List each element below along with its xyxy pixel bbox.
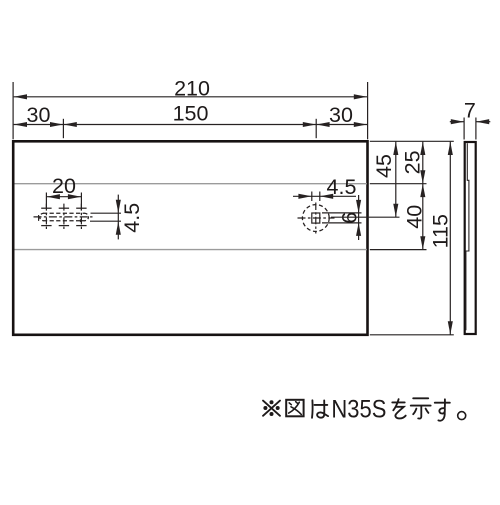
note kanji shimesu bbox=[411, 398, 431, 418]
left slot horizontal centerline bbox=[34, 216, 93, 218]
dimension line 210 bbox=[14, 96, 368, 98]
left extension line bbox=[12, 82, 14, 139]
svg-text:4.5: 4.5 bbox=[327, 175, 357, 199]
note hiragana wo bbox=[392, 399, 405, 418]
dimension line 6 bbox=[358, 195, 360, 240]
note hiragana ha bbox=[312, 400, 328, 418]
svg-text:30: 30 bbox=[329, 103, 353, 127]
dimension line 4.5 right bbox=[293, 195, 356, 197]
right extension line bbox=[367, 82, 369, 139]
svg-text:115: 115 bbox=[428, 214, 452, 248]
dimension line 115 bbox=[449, 142, 451, 335]
right hole dashed circle bbox=[302, 205, 329, 232]
dimension line 45 bbox=[395, 142, 397, 217]
svg-text:4.5: 4.5 bbox=[120, 203, 144, 233]
note ideographic full stop bbox=[458, 412, 466, 420]
dim 4.5 left extension lines bbox=[91, 212, 122, 214]
extension line 25-40 bbox=[370, 183, 427, 185]
svg-text:45: 45 bbox=[372, 154, 396, 178]
dim 7 extension lines bbox=[463, 118, 465, 140]
extension line 45 from hole bbox=[331, 216, 400, 218]
svg-text:210: 210 bbox=[174, 76, 210, 100]
dimension line 20 bbox=[46, 196, 81, 198]
extension line top right bbox=[370, 140, 454, 142]
note hiragana su bbox=[435, 399, 450, 420]
dim 4.5 right ticks bbox=[311, 192, 313, 202]
svg-text:25: 25 bbox=[401, 150, 425, 174]
svg-text:30: 30 bbox=[27, 103, 51, 127]
hole 3 vertical centerline bbox=[80, 204, 82, 230]
note reference mark kome bbox=[263, 400, 280, 416]
svg-text:150: 150 bbox=[173, 102, 209, 126]
tick between 150 and 30 bbox=[315, 119, 317, 138]
note kanji zu bbox=[286, 400, 303, 417]
dimension line 4.5 left bbox=[117, 195, 119, 240]
svg-text:20: 20 bbox=[52, 174, 76, 198]
dimension line 40 bbox=[422, 184, 424, 250]
side view inner face line bbox=[466, 143, 469, 330]
svg-text:40: 40 bbox=[402, 205, 426, 229]
extension line bottom right bbox=[370, 334, 454, 336]
side view outline bbox=[465, 142, 476, 334]
lower score line (65mm from top) bbox=[15, 249, 367, 251]
dimension line 25 bbox=[422, 142, 424, 184]
hole 1 vertical centerline bbox=[45, 204, 47, 230]
hole tick marks lower bbox=[41, 225, 51, 227]
svg-text:N35S: N35S bbox=[331, 397, 386, 424]
hole tick marks upper bbox=[41, 207, 51, 209]
right hole small slot bbox=[312, 213, 320, 223]
right hole vertical centerline bbox=[315, 203, 317, 234]
dimension line 7 bbox=[450, 121, 464, 123]
left slot hidden outline dashed bbox=[40, 213, 89, 221]
left slot small arrow mark bbox=[80, 219, 84, 222]
extension line 40 lower bbox=[370, 249, 427, 251]
left slot end tick bbox=[38, 215, 40, 221]
dim 20 extension tick right bbox=[80, 193, 82, 211]
hole 2 vertical centerline bbox=[63, 204, 65, 230]
plate front view outline bbox=[13, 141, 367, 334]
right hole horizontal centerline bbox=[298, 217, 335, 219]
dim 20 extension tick left bbox=[45, 193, 47, 209]
dimension line 30-150-30 bbox=[14, 124, 368, 126]
tick between 30 and 150 bbox=[62, 119, 64, 138]
dim 6 extension lines bbox=[322, 212, 362, 214]
svg-text:7: 7 bbox=[464, 98, 476, 122]
upper score line (25mm from top) bbox=[15, 183, 367, 185]
